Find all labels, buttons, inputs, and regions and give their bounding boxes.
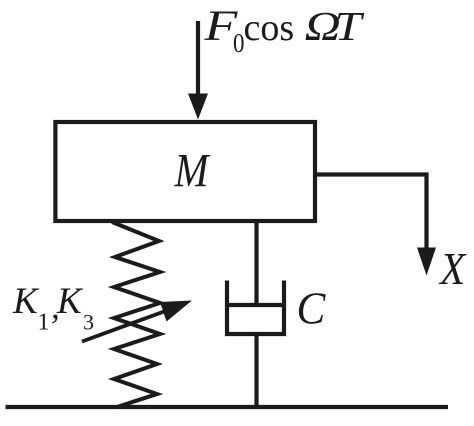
svg-text:1: 1 [38, 310, 50, 336]
svg-text:K: K [12, 281, 40, 322]
svg-text:cos: cos [244, 7, 295, 49]
svg-text:M: M [174, 143, 212, 197]
svg-text:K: K [56, 281, 84, 322]
svg-text:T: T [335, 3, 365, 49]
svg-text:3: 3 [83, 310, 94, 335]
svg-text:C: C [297, 284, 326, 334]
svg-text:X: X [438, 244, 467, 294]
